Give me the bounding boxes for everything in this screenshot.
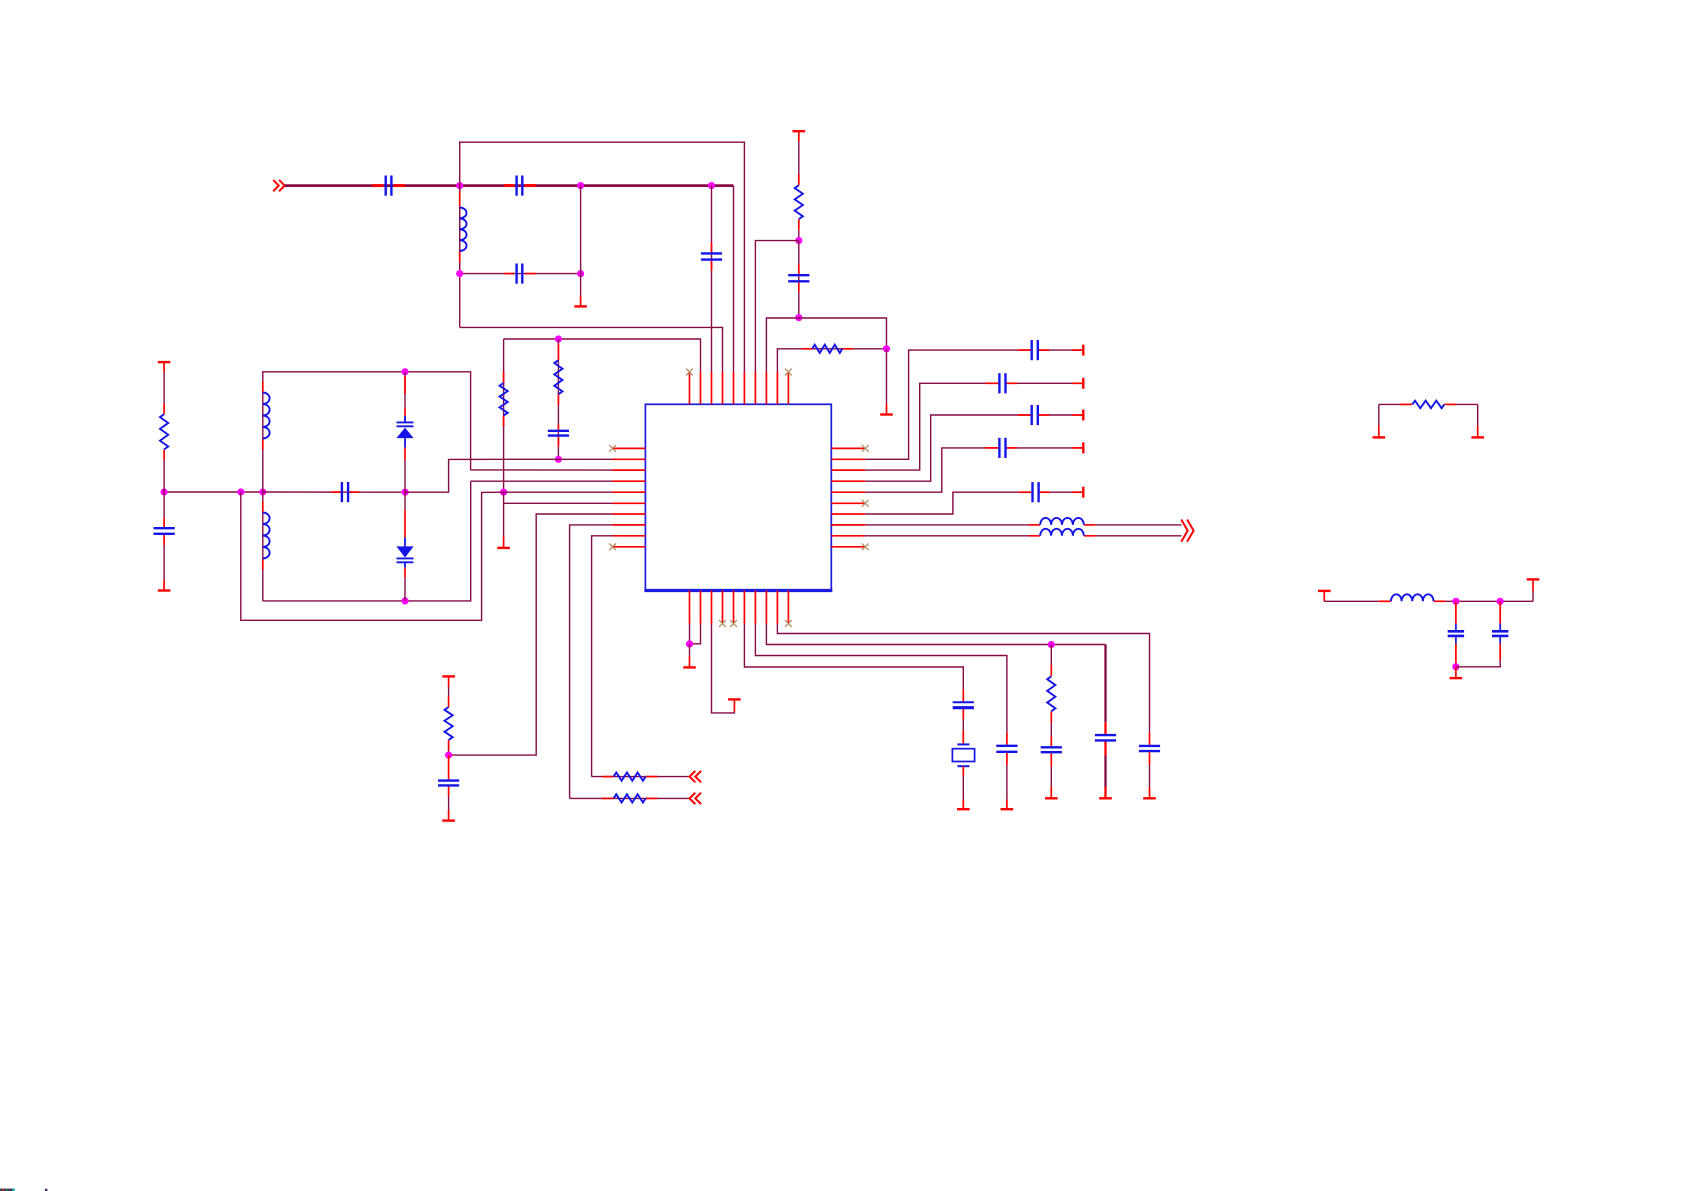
wire row633 route — [777, 624, 1149, 733]
wire C15 leads (pin-lead red segments) — [1019, 491, 1084, 493]
wire C6 leads (pin-lead red segments) — [163, 518, 165, 546]
ground tick below C21 — [1001, 808, 1014, 810]
connector J3 chevron (row B) — [690, 793, 702, 804]
capacitor C25 blue leads — [1455, 624, 1457, 644]
wire C25 leads (pin-lead red segments) — [1455, 601, 1457, 623]
wire C24 tick stem (pin-lead red segments) — [1149, 787, 1151, 798]
wire C3 leads (pin-lead red segments) — [504, 273, 536, 275]
no-connect X bottom pin 10 — [785, 620, 792, 627]
wire right row 3 — [865, 415, 1031, 481]
wire C9 leads (pin-lead red segments) — [448, 755, 450, 796]
screen artifact pixels — [0, 1189, 47, 1191]
wire box bottom edge — [263, 481, 471, 601]
capacitor C9 — [438, 781, 459, 786]
wire R11 row — [1379, 403, 1400, 405]
wire R1-N6 — [798, 230, 800, 241]
capacitor C7 — [342, 482, 348, 502]
inductor L2 — [263, 393, 270, 439]
wire output row 1 — [865, 524, 1029, 526]
wire row459 to pin — [558, 458, 612, 460]
ground tick below C23 — [1099, 797, 1112, 799]
no-connect X top pin 1 — [686, 369, 693, 376]
wire R1 column upper — [798, 142, 800, 175]
wire LC row — [1324, 600, 1378, 602]
termination tick below R5 — [497, 547, 510, 549]
IC U1 bottom pin stubs — [690, 591, 789, 624]
wire box outline — [263, 372, 471, 492]
wire C9 tick stem (pin-lead red segments) — [448, 810, 450, 821]
wire input bus (pin-lead red segments) — [372, 184, 536, 187]
wire N5 ground stub — [580, 274, 582, 296]
wire N3-C4-pin vertical — [711, 186, 713, 372]
wire R6 leads (pin-lead red segments) — [557, 344, 559, 447]
node N6 (R1/C5) — [795, 237, 802, 244]
no-connect X left pin 1 — [609, 445, 616, 452]
wire C12 leads (pin-lead red segments) — [985, 382, 1083, 384]
node N22 (LC/C26) — [1497, 598, 1504, 605]
resistor R5 — [500, 383, 508, 416]
wire C24 ground drop — [1149, 765, 1151, 787]
capacitor C25 — [1448, 631, 1464, 636]
wire row655 route — [755, 624, 1007, 733]
wire LC right riser — [1532, 591, 1534, 601]
termination tick below N8 — [880, 413, 893, 415]
wire L6 leads (pin-lead red segments) — [1379, 600, 1446, 602]
resistor R7 — [445, 707, 453, 740]
IC U1 top pin stubs (pins 1-10) — [690, 372, 789, 405]
wire right row 5 cont — [1039, 491, 1083, 493]
ground tick below N23 — [1450, 677, 1463, 679]
wire C6 ground drop — [163, 545, 165, 580]
wire N19 tick stem (pin-lead red segments) — [689, 656, 691, 667]
wire C6 tick stem (pin-lead red segments) — [163, 580, 165, 591]
capacitor C20 — [953, 702, 974, 707]
no-connect X left pin 10 — [609, 543, 616, 550]
diode D2 (varactor, cathode down) — [396, 492, 413, 601]
wire N19 stub — [689, 644, 691, 656]
wire R7 leads (pin-lead red segments) — [448, 697, 450, 751]
wire R11 drop right red (pin-lead red segments) — [1477, 426, 1479, 437]
no-connect X top pin 10 — [785, 369, 792, 376]
tick left of R11 — [1373, 436, 1386, 438]
wire C25 lower lead (pin-lead red segments) — [1455, 644, 1457, 667]
termination tick pin3b — [728, 698, 741, 700]
wire output row 2 — [865, 535, 1029, 537]
wire row y339 — [504, 339, 701, 372]
capacitor C26 blue leads — [1499, 624, 1501, 644]
wire C26 return — [1456, 660, 1500, 667]
node N13 (underpass tap) — [237, 488, 244, 495]
wire N23 tick stem (pin-lead red segments) — [1455, 667, 1457, 678]
inductor L6 — [1391, 594, 1434, 601]
node N20 (row644/R10) — [1048, 641, 1055, 648]
power tick above R1 — [793, 131, 806, 141]
capacitor C21 — [996, 746, 1017, 752]
wire C4 leads (pin-lead red segments) — [711, 243, 713, 271]
ground tick below C9 — [442, 819, 455, 821]
wire R5 leads (pin-lead red segments) — [503, 372, 505, 427]
wire row514 route — [449, 514, 613, 755]
node N17 (diode mid) — [402, 489, 409, 496]
diode D1 (varactor, cathode up) — [396, 372, 413, 492]
wire left node rail y492 — [164, 491, 263, 493]
wire R10 leads (pin-lead red segments) — [1050, 665, 1052, 723]
wire R11 row right — [1456, 403, 1477, 405]
wire R7 column upper — [448, 687, 450, 697]
termination tick row 3 — [1082, 410, 1084, 421]
capacitor C22 — [1041, 747, 1062, 752]
capacitor C6 — [154, 528, 175, 534]
wire right row 2 cont — [1006, 382, 1083, 384]
wire C7 row — [263, 491, 405, 493]
wire underpass route — [241, 492, 504, 620]
wire R2 leads (pin-lead red segments) — [802, 348, 854, 350]
capacitor C26 — [1492, 631, 1508, 636]
no-connect X right pin 10 — [862, 543, 869, 550]
no-connect X bottom pin 4 — [719, 620, 726, 627]
wire C26 lower lead (pin-lead red segments) — [1499, 644, 1501, 661]
wire row503 to pin — [504, 502, 613, 504]
wire L1 leads (pin-lead red segments) — [459, 192, 461, 263]
node N5 (C3/stub) — [577, 270, 584, 277]
IC U1 left pin stubs — [613, 448, 646, 546]
wire pin3b tick stem (pin-lead red segments) — [733, 699, 735, 711]
no-connect X bottom pin 5 — [730, 620, 737, 627]
wire right row 1 cont — [1038, 349, 1083, 351]
wire C22 ground drop — [1050, 766, 1052, 787]
capacitor C1 — [386, 176, 392, 196]
wire C23 leads (pin-lead red segments) — [1104, 722, 1106, 755]
resistor R11 — [1412, 401, 1444, 409]
wire LC mid row — [1445, 600, 1533, 602]
wire Y1 tick stem (pin-lead red segments) — [962, 800, 964, 810]
capacitor C23 — [1095, 735, 1116, 740]
capacitor C12 — [999, 373, 1005, 393]
wire C14 leads (pin-lead red segments) — [985, 447, 1083, 449]
wire row525 route — [570, 525, 613, 799]
wire R5 column — [503, 339, 505, 492]
wire LC right tick stem (pin-lead red segments) — [1532, 580, 1534, 591]
wire R11 left drop — [1378, 404, 1380, 426]
wire RA leads (pin-lead red segments) — [602, 776, 658, 778]
ground tick below C6 — [158, 589, 171, 591]
capacitor C15 — [1033, 482, 1039, 502]
wire R9 leads (pin-lead red segments) — [602, 797, 658, 799]
wire N8 tick stem (pin-lead red segments) — [886, 404, 888, 415]
capacitor C8 — [548, 431, 569, 436]
node N7 (C5/row318) — [795, 314, 802, 321]
wire R5 ground drop — [503, 492, 505, 536]
wire L5 leads (pin-lead red segments) — [1029, 535, 1095, 537]
inductor L1 — [460, 208, 467, 252]
wire right row 3 cont — [1038, 414, 1083, 416]
wire row481 to pin — [471, 480, 613, 482]
node N8 (R2/drop) — [883, 345, 890, 352]
capacitor C24 — [1139, 746, 1160, 751]
wire right row 4 — [865, 448, 999, 492]
wire N2 riser... bus corner to pin — [733, 186, 735, 372]
power tick above R7 — [442, 676, 455, 687]
wire L1 branch vertical — [459, 186, 461, 274]
wire C20-Y1 — [962, 719, 964, 731]
node N4 (L1/C3) — [456, 270, 463, 277]
wire R6 column — [557, 339, 559, 459]
inductor L5 — [1040, 529, 1084, 536]
node N14 (box left mid) — [259, 488, 266, 495]
termination tick row 4 — [1082, 442, 1084, 453]
wire Y1 top lead (pin-lead red segments) — [962, 731, 964, 744]
capacitor C4 — [701, 253, 722, 259]
wire R3-N12 — [163, 460, 165, 492]
node N1 (bus/L1) — [456, 182, 463, 189]
wire row536 route — [592, 536, 613, 777]
wire N8 drop — [886, 349, 888, 404]
wire row644 drop — [1104, 645, 1106, 723]
ground tick below C22 — [1045, 797, 1058, 799]
ground tick below N19 — [683, 666, 696, 668]
wire R11 drop left red (pin-lead red segments) — [1378, 426, 1380, 437]
capacitor C5 — [788, 275, 809, 281]
node N15 (box top) — [401, 368, 408, 375]
wire right row 4 cont — [1006, 447, 1083, 449]
wire output row 2 cont — [1095, 535, 1181, 537]
wire R3 leads (pin-lead red segments) — [163, 404, 165, 461]
wire C5 leads (pin-lead red segments) — [798, 265, 800, 293]
wire R11 right drop — [1477, 404, 1479, 426]
power tick LC output — [1527, 578, 1540, 580]
termination tick row 5 — [1082, 487, 1084, 498]
resistor R8 — [614, 773, 646, 781]
wire output row 1 cont — [1095, 524, 1181, 526]
wire C21 ground drop — [1006, 765, 1008, 800]
node N12 (R3/C6) — [161, 488, 168, 495]
node N21 (LC/C25) — [1452, 598, 1459, 605]
capacitor C11 — [1032, 340, 1038, 360]
wire Y1 ground drop — [962, 776, 964, 800]
wire stair to pin y459 — [405, 459, 558, 492]
wire C22 tick stem (pin-lead red segments) — [1050, 787, 1052, 798]
wire C23 tick stem (pin-lead red segments) — [1104, 787, 1106, 798]
connector J2 chevron (row A) — [690, 771, 702, 782]
wire C23 ground drop — [1104, 756, 1106, 788]
resistor R10 — [1047, 676, 1055, 711]
wire gnd pins join — [689, 624, 691, 644]
node N19 (gnd pins) — [686, 640, 693, 647]
connector J4 chevron (differential output pair) — [1181, 520, 1193, 542]
wire L3 leads (pin-lead red segments) — [262, 502, 264, 570]
inductor L4 — [1040, 518, 1084, 525]
node N9 (row339/R6) — [555, 335, 562, 342]
termination tick row 2 — [1082, 378, 1084, 389]
IC U1 right pin stubs — [831, 448, 865, 546]
IC U1 (main chip) — [644, 404, 832, 590]
capacitor C13 — [1032, 405, 1038, 425]
wire Y1 bottom lead (pin-lead red segments) — [962, 766, 964, 775]
resistor R9 — [614, 794, 646, 802]
wire R11 leads (pin-lead red segments) — [1400, 403, 1457, 405]
node N23 (C25 gnd) — [1452, 663, 1459, 670]
wire C21 tick stem (pin-lead red segments) — [1006, 800, 1008, 810]
ground tick below C24 — [1143, 797, 1156, 799]
wire pin6t riser row — [755, 241, 798, 372]
wire top loop upper run — [460, 142, 745, 372]
wire C21 leads (pin-lead red segments) — [1006, 733, 1008, 765]
resistor R1 — [795, 185, 803, 219]
wire C6 column — [163, 492, 165, 518]
wire row644 route — [766, 624, 1105, 645]
wire C20 leads (pin-lead red segments) — [962, 690, 964, 720]
wire C9 ground drop — [448, 797, 450, 811]
ground tick below N5 — [574, 296, 587, 307]
wire N2-N5 vertical — [580, 186, 582, 274]
wire box lower left — [262, 492, 264, 601]
tick right of R11 — [1471, 436, 1484, 438]
wire C5 column — [798, 241, 800, 318]
wire right row 1 — [865, 350, 1031, 459]
node N2 (bus/C2 out) — [577, 182, 584, 189]
diode D1 red upper lead — [404, 376, 406, 394]
resistor R6 — [554, 360, 562, 394]
wire R10-C22 — [1050, 723, 1052, 737]
wire row B to chevron — [570, 797, 690, 799]
wire row470 to pin — [471, 469, 613, 471]
wire right row 5 — [865, 492, 1032, 514]
resistor R3 — [160, 414, 168, 449]
no-connect X right pin 6 — [862, 500, 869, 507]
wire row y349 — [777, 349, 886, 372]
wire C24 leads (pin-lead red segments) — [1149, 733, 1151, 765]
wire C26 leads (pin-lead red segments) — [1499, 601, 1501, 623]
node N11 (R6C8/row459) — [555, 456, 562, 463]
no-connect X right pin 1 — [862, 445, 869, 452]
wire C22 leads (pin-lead red segments) — [1050, 737, 1052, 767]
wire row492 to pin — [504, 491, 613, 493]
wire pin3b route — [712, 624, 735, 713]
wire row A to chevron — [592, 776, 690, 778]
wire row y318 — [766, 318, 886, 372]
connector J1 chevron — [273, 180, 284, 191]
wire C13 leads (pin-lead red segments) — [1018, 414, 1083, 416]
wire xtal row — [744, 624, 963, 690]
node N10 (R5/row492) — [500, 489, 507, 496]
wire R7-N18 — [448, 751, 450, 756]
inductor L3 — [263, 513, 270, 559]
wire C11 leads (pin-lead red segments) — [1018, 349, 1083, 351]
wire right row 2 — [865, 383, 999, 470]
wire R3 column upper — [163, 372, 165, 403]
capacitor C14 — [999, 438, 1005, 458]
wire C7 leads (pin-lead red segments) — [331, 491, 359, 493]
capacitor C2 — [517, 176, 523, 196]
wire L4 leads (pin-lead red segments) — [1029, 524, 1095, 526]
ground tick below Y1 — [957, 808, 970, 810]
node N16 (box bottom) — [401, 597, 408, 604]
wire L2 leads (pin-lead red segments) — [262, 382, 264, 450]
termination tick row 1 — [1082, 345, 1084, 356]
power tick LC input — [1318, 591, 1331, 601]
wire R1 leads (pin-lead red segments) — [798, 175, 800, 230]
node N18 (R7/C9/row514) — [445, 752, 452, 759]
wire bottom loop run to pin — [460, 327, 723, 372]
wire R5 tick stem (pin-lead red segments) — [503, 537, 505, 548]
power tick above R3 — [158, 362, 171, 372]
node N3 (bus/C4 tap) — [708, 182, 715, 189]
wire main input bus — [285, 184, 734, 187]
resistor R2 — [812, 345, 842, 353]
wire gnd pins join 2 — [690, 624, 701, 644]
wire C3 row — [460, 273, 581, 275]
crystal Y1 — [952, 744, 974, 766]
wire R10 column — [1050, 645, 1052, 666]
capacitor C3 — [517, 264, 523, 284]
